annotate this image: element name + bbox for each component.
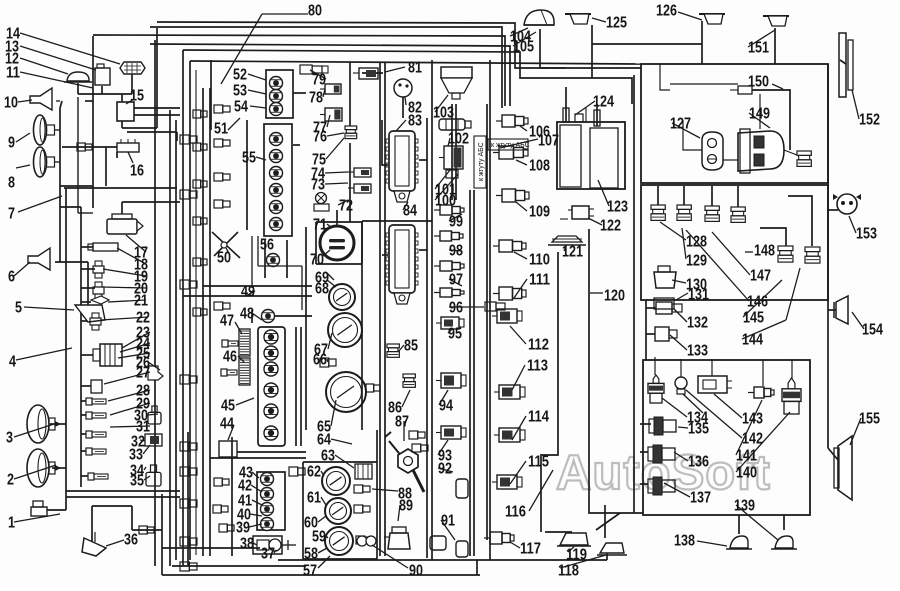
svg-text:95: 95	[448, 326, 462, 343]
svg-text:84: 84	[403, 203, 417, 220]
svg-text:152: 152	[859, 112, 880, 129]
svg-text:71: 71	[313, 217, 327, 234]
svg-text:38: 38	[240, 536, 254, 553]
svg-text:69: 69	[315, 270, 329, 287]
svg-text:52: 52	[233, 67, 247, 84]
svg-text:155: 155	[859, 411, 880, 428]
svg-text:145: 145	[743, 310, 764, 327]
svg-text:111: 111	[529, 272, 550, 289]
svg-text:119: 119	[566, 547, 587, 564]
svg-text:149: 149	[749, 106, 770, 123]
svg-text:21: 21	[134, 293, 148, 310]
svg-text:97: 97	[449, 272, 463, 289]
svg-text:35: 35	[130, 473, 144, 490]
svg-text:70: 70	[310, 252, 324, 269]
svg-text:118: 118	[558, 563, 579, 580]
svg-text:113: 113	[527, 358, 548, 375]
svg-text:41: 41	[238, 493, 252, 510]
svg-text:99: 99	[449, 214, 463, 231]
svg-text:110: 110	[529, 252, 550, 269]
svg-text:93: 93	[438, 448, 452, 465]
svg-text:120: 120	[604, 288, 625, 305]
svg-text:56: 56	[260, 237, 274, 254]
svg-text:47: 47	[220, 313, 234, 330]
svg-text:44: 44	[220, 416, 234, 433]
svg-text:90: 90	[409, 563, 423, 580]
svg-text:133: 133	[687, 343, 708, 360]
svg-text:67: 67	[314, 342, 328, 359]
svg-text:2: 2	[7, 472, 14, 489]
svg-text:65: 65	[317, 419, 331, 436]
svg-text:125: 125	[606, 15, 627, 32]
svg-text:151: 151	[748, 40, 769, 57]
svg-text:14: 14	[6, 26, 20, 43]
svg-text:136: 136	[688, 454, 709, 471]
svg-text:131: 131	[688, 287, 709, 304]
svg-text:80: 80	[308, 3, 322, 20]
svg-text:6: 6	[8, 269, 15, 286]
svg-text:27: 27	[136, 365, 150, 382]
svg-text:54: 54	[234, 99, 248, 116]
svg-text:61: 61	[307, 490, 321, 507]
svg-text:108: 108	[529, 158, 550, 175]
svg-text:129: 129	[686, 253, 707, 270]
svg-text:146: 146	[747, 294, 768, 311]
svg-text:51: 51	[214, 121, 228, 138]
svg-text:121: 121	[562, 244, 583, 261]
svg-text:8: 8	[8, 175, 15, 192]
svg-text:55: 55	[242, 150, 256, 167]
svg-text:137: 137	[690, 490, 711, 507]
svg-text:150: 150	[748, 74, 769, 91]
svg-text:62: 62	[307, 464, 321, 481]
svg-text:89: 89	[399, 498, 413, 515]
svg-text:101: 101	[435, 182, 456, 199]
svg-text:126: 126	[656, 3, 677, 20]
svg-text:7: 7	[8, 206, 15, 223]
svg-text:105: 105	[513, 39, 534, 56]
svg-text:48: 48	[240, 306, 254, 323]
svg-text:81: 81	[408, 60, 422, 77]
svg-text:58: 58	[304, 546, 318, 563]
svg-text:77: 77	[313, 120, 327, 137]
svg-text:72: 72	[339, 198, 353, 215]
svg-text:94: 94	[439, 398, 453, 415]
svg-text:к жгуту АБС: к жгуту АБС	[478, 142, 485, 181]
svg-text:60: 60	[304, 515, 318, 532]
svg-text:36: 36	[124, 532, 138, 549]
svg-text:57: 57	[303, 563, 317, 580]
svg-text:1: 1	[8, 515, 15, 532]
svg-text:148: 148	[754, 243, 775, 260]
svg-text:117: 117	[520, 541, 541, 558]
svg-text:123: 123	[607, 199, 628, 216]
svg-text:37: 37	[261, 546, 275, 563]
svg-text:141: 141	[736, 448, 757, 465]
svg-text:142: 142	[742, 431, 763, 448]
svg-text:144: 144	[742, 332, 763, 349]
svg-text:63: 63	[321, 448, 335, 465]
svg-text:115: 115	[528, 454, 549, 471]
svg-text:83: 83	[408, 113, 422, 130]
svg-text:33: 33	[129, 447, 143, 464]
svg-text:147: 147	[750, 268, 771, 285]
svg-text:132: 132	[687, 315, 708, 332]
svg-text:153: 153	[856, 226, 877, 243]
svg-text:85: 85	[404, 338, 418, 355]
svg-text:139: 139	[734, 498, 755, 515]
svg-text:103: 103	[433, 105, 454, 122]
svg-text:5: 5	[15, 300, 22, 317]
svg-text:128: 128	[686, 234, 707, 251]
svg-text:122: 122	[600, 218, 621, 235]
svg-text:98: 98	[449, 243, 463, 260]
svg-text:79: 79	[312, 72, 326, 89]
svg-text:116: 116	[505, 504, 526, 521]
svg-text:143: 143	[742, 411, 763, 428]
svg-text:9: 9	[8, 135, 15, 152]
svg-text:3: 3	[6, 430, 13, 447]
svg-text:16: 16	[130, 163, 144, 180]
svg-text:78: 78	[309, 90, 323, 107]
svg-text:75: 75	[312, 152, 326, 169]
svg-text:135: 135	[688, 421, 709, 438]
svg-text:46: 46	[223, 349, 237, 366]
svg-text:109: 109	[529, 204, 550, 221]
svg-text:154: 154	[862, 322, 883, 339]
svg-text:49: 49	[241, 284, 255, 301]
svg-text:50: 50	[217, 250, 231, 267]
svg-text:96: 96	[449, 300, 463, 317]
svg-text:140: 140	[736, 465, 757, 482]
svg-text:4: 4	[9, 354, 16, 371]
svg-text:138: 138	[674, 533, 695, 550]
svg-text:107: 107	[538, 133, 559, 150]
svg-text:114: 114	[528, 409, 549, 426]
svg-text:45: 45	[221, 398, 235, 415]
svg-text:43: 43	[239, 465, 253, 482]
svg-text:53: 53	[233, 83, 247, 100]
svg-text:112: 112	[528, 337, 549, 354]
svg-text:91: 91	[441, 513, 455, 530]
svg-text:87: 87	[395, 414, 409, 431]
svg-text:127: 127	[670, 116, 691, 133]
svg-text:15: 15	[130, 88, 144, 105]
svg-text:102: 102	[448, 131, 469, 148]
svg-text:124: 124	[593, 94, 614, 111]
svg-text:10: 10	[4, 95, 18, 112]
